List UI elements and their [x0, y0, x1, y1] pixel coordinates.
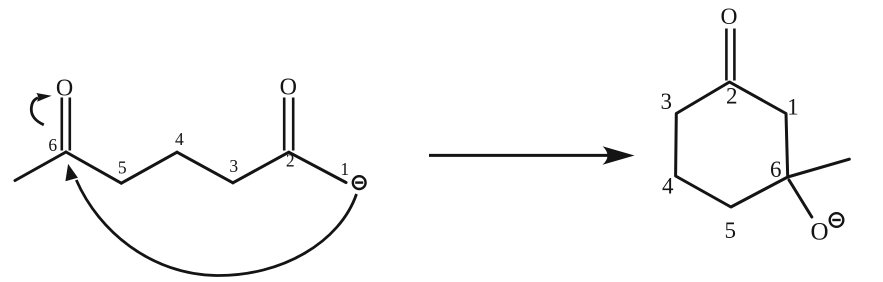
bond C6-methyl	[15, 152, 66, 181]
double bond C2=O (product)	[725, 29, 728, 81]
big curved arrow (C1 attacks C6)	[76, 180, 356, 276]
svg-text:6: 6	[48, 135, 57, 155]
svg-text:2: 2	[726, 84, 738, 109]
double bond C2=O (left molecule)	[283, 98, 286, 151]
bond C6-O(-)	[789, 180, 812, 217]
product ring	[676, 82, 850, 217]
svg-text:6: 6	[770, 157, 782, 182]
svg-text:1: 1	[787, 94, 799, 119]
svg-text:3: 3	[660, 89, 672, 114]
bond C5-C4	[121, 152, 177, 183]
bond C3-C2	[233, 152, 289, 183]
svg-text:5: 5	[724, 218, 736, 243]
svg-text:O: O	[280, 74, 297, 100]
svg-text:O: O	[56, 76, 73, 102]
svg-text:O: O	[721, 4, 738, 30]
svg-text:2: 2	[286, 151, 295, 171]
double bond C6=O	[60, 98, 63, 151]
methyl on C6	[788, 159, 850, 177]
bond C6-C5	[66, 152, 121, 183]
reaction arrow	[429, 154, 612, 157]
small curved arrow (electrons to O)	[31, 98, 44, 125]
svg-text:5: 5	[118, 157, 127, 177]
svg-text:O: O	[810, 219, 828, 246]
svg-text:4: 4	[662, 174, 674, 199]
charge circle minus on C1	[353, 176, 366, 189]
bond C2-C1	[289, 152, 346, 182]
svg-text:1: 1	[340, 159, 349, 179]
svg-text:4: 4	[175, 129, 184, 149]
bond C4-C3	[177, 152, 233, 183]
svg-text:3: 3	[229, 156, 238, 176]
